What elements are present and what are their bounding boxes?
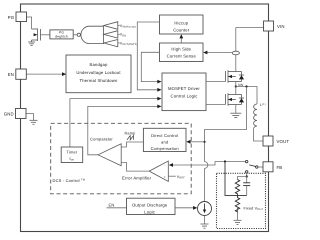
svg-text:High Side: High Side xyxy=(171,47,191,52)
svg-text:PG: PG xyxy=(8,15,15,20)
switch contact upper xyxy=(246,160,248,162)
node VREF xyxy=(168,175,176,177)
wire FB pin to switch pole xyxy=(258,166,263,168)
wire low-side source to ground xyxy=(235,105,237,114)
svg-text:ton: ton xyxy=(69,156,74,162)
node junction sense tap xyxy=(245,85,247,87)
svg-text:VREF: VREF xyxy=(177,175,185,180)
ground symbol at GND pin xyxy=(30,120,38,124)
wire gate drive high-side xyxy=(206,81,226,83)
svg-text:EN: EN xyxy=(8,72,14,77)
svg-text:Timer: Timer xyxy=(66,150,77,155)
switch pole at FB xyxy=(256,166,258,168)
node SW xyxy=(235,85,237,87)
wire high-side source to SW xyxy=(235,82,237,87)
wire comparator lower input from error amplifier xyxy=(121,163,149,172)
pin VIN xyxy=(264,21,274,31)
svg-text:Output Discharge: Output Discharge xyxy=(132,203,168,208)
svg-text:EN: EN xyxy=(109,202,115,207)
PG deglitch block xyxy=(50,30,73,39)
svg-text:and: and xyxy=(161,140,168,145)
IC boundary border xyxy=(21,4,269,232)
svg-text:-: - xyxy=(164,164,165,168)
wire divider tap down to divider bottom node xyxy=(225,162,247,196)
comparator VIN threshold (top input triangle) xyxy=(104,22,118,30)
wire Timer to MOSFET Driver (arrow) xyxy=(70,99,159,148)
wire SW rail to inductor xyxy=(236,87,257,105)
node junction at direct control branch xyxy=(203,141,205,143)
wire PG pin to PG FET drain xyxy=(27,17,32,29)
wire sense element to high-side FET drain xyxy=(235,55,237,72)
wire gate drive low-side xyxy=(206,104,226,106)
wire GND pin to ground xyxy=(26,114,34,121)
arrow sense element to High Side Current Sense xyxy=(207,52,233,54)
Hiccup Counter block xyxy=(160,15,204,34)
svg-text:Error Amplifier: Error Amplifier xyxy=(122,176,152,181)
arrow into Direct Control and Compensation xyxy=(190,141,205,143)
svg-text:Logic: Logic xyxy=(144,210,155,215)
svg-text:Fixed VOUT: Fixed VOUT xyxy=(244,206,264,211)
transistor PG open-drain FET xyxy=(32,29,41,42)
op-amp error amplifier xyxy=(149,161,168,182)
wire internal feedback rail xyxy=(215,161,246,163)
Timer ton block xyxy=(61,147,82,163)
svg-text:FB: FB xyxy=(277,165,283,170)
svg-text:Undervoltage Lockout: Undervoltage Lockout xyxy=(76,70,121,75)
wire Hiccup Counter to MOSFET Driver (arrow) xyxy=(137,22,159,90)
wire feedback to error amplifier inverting input (arrow) xyxy=(172,162,215,166)
svg-text:DCS - Control TM: DCS - Control TM xyxy=(53,178,86,183)
svg-text:Thermal Shutdown: Thermal Shutdown xyxy=(79,78,118,83)
capacitor C1 (feedforward) xyxy=(246,177,248,183)
svg-text:Compensation: Compensation xyxy=(151,146,179,151)
svg-text:L(1): L(1) xyxy=(260,103,266,107)
ground below divider xyxy=(234,220,242,224)
svg-text:VOUT: VOUT xyxy=(277,139,290,144)
wire PG FET gate to deglitch xyxy=(41,34,50,36)
pin FB xyxy=(263,162,273,172)
wire EN to Output Discharge Logic xyxy=(107,207,127,209)
transistor low-side MOSFET xyxy=(226,93,245,105)
wire comparator upper input from Direct Control xyxy=(121,142,143,147)
wire current source to ground xyxy=(204,216,206,224)
ground below PG FET xyxy=(28,42,35,46)
svg-text:Bandgap: Bandgap xyxy=(89,62,108,67)
svg-text:Direct Control: Direct Control xyxy=(151,133,178,138)
ground below low-side MOSFET xyxy=(230,113,241,117)
wire VIN pin to current sense element xyxy=(236,28,264,52)
wire SW to low-side drain xyxy=(235,87,237,95)
wire High Side Current Sense to MOSFET Driver (arrow) xyxy=(141,52,159,81)
node junction divider tap xyxy=(224,160,226,162)
resistor R2 (lower divider) xyxy=(235,196,239,212)
svg-text:VIN: VIN xyxy=(277,24,285,29)
Output Discharge Logic block xyxy=(127,198,176,214)
wire Comparator output to MOSFET Driver (arrow) xyxy=(88,106,159,154)
svg-text:GND: GND xyxy=(4,112,14,117)
svg-text:+: + xyxy=(164,175,166,179)
op-amp comparator xyxy=(98,144,121,166)
svg-text:Control Logic: Control Logic xyxy=(170,94,197,99)
arrow Output Discharge Logic to current source xyxy=(175,207,194,209)
pin PG xyxy=(16,12,27,22)
comparator VEN (middle input triangle) xyxy=(104,31,118,38)
pin EN xyxy=(16,69,26,79)
wire EN pin to Bandgap (arrow) xyxy=(26,73,63,75)
MOSFET Driver Control Logic block xyxy=(162,73,206,111)
ground below current source xyxy=(201,224,209,228)
node junction divider top xyxy=(246,175,248,177)
dotted box fixed VOUT divider xyxy=(217,173,266,228)
Direct Control and Compensation block xyxy=(143,128,186,151)
wire deglitch to NAND bubble xyxy=(73,34,77,36)
current source discharge xyxy=(198,202,212,216)
wire hop over feedback line xyxy=(205,162,208,169)
switch lever xyxy=(249,165,255,167)
svg-text:deglitch: deglitch xyxy=(55,35,68,39)
arrow High Side Current Sense to Hiccup Counter xyxy=(180,37,182,43)
Bandgap / UVLO / Thermal Shutdown block xyxy=(66,55,131,93)
wire inductor to VOUT pin xyxy=(254,126,264,141)
inductor L1 xyxy=(254,104,257,126)
resistor R1 (upper divider) xyxy=(238,177,247,180)
svg-text:Counter: Counter xyxy=(173,27,190,32)
High Side Current Sense block xyxy=(160,43,204,62)
current sense ellipse xyxy=(232,51,239,55)
wire switch lower contact to divider top xyxy=(246,173,248,176)
switch contact lower xyxy=(246,171,248,173)
NAND gate (mirrored, output left) xyxy=(77,33,80,36)
dashed box DCS-Control xyxy=(51,123,192,194)
svg-text:MOSFET Driver: MOSFET Driver xyxy=(168,86,200,91)
wire SW sense tap down and to direct control / current source xyxy=(205,87,247,162)
pin VOUT xyxy=(263,136,273,146)
svg-text:Comparator: Comparator xyxy=(90,136,113,141)
svg-text:VOUT(PGTh): VOUT(PGTh) xyxy=(120,41,138,46)
pin GND xyxy=(16,109,27,119)
transistor high-side MOSFET xyxy=(226,70,245,82)
comparator VOUT threshold (bottom input triangle) xyxy=(104,40,118,47)
svg-text:Hiccup: Hiccup xyxy=(174,21,188,26)
svg-text:VEN: VEN xyxy=(120,33,126,38)
svg-text:Current Sense: Current Sense xyxy=(167,54,197,59)
svg-text:VIN(Hiccup): VIN(Hiccup) xyxy=(120,24,136,29)
